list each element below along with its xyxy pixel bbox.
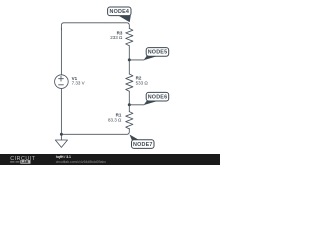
voltage source V1 bbox=[55, 75, 69, 89]
resistor R3 bbox=[126, 28, 133, 45]
svg-text:hqfH / 3.1: hqfH / 3.1 bbox=[56, 155, 71, 159]
node junction dot ground bbox=[60, 133, 63, 136]
watermark logo LAB bbox=[10, 160, 31, 164]
wire bottom horizontal bbox=[61, 129, 129, 135]
svg-text:7.33 V: 7.33 V bbox=[72, 81, 85, 86]
node flag NODE5 bbox=[144, 48, 169, 61]
wire left rail upper bbox=[60, 28, 62, 75]
watermark bar bbox=[0, 154, 220, 165]
svg-text:NODE4: NODE4 bbox=[110, 9, 130, 15]
wire R2 to node6 junction bbox=[128, 91, 130, 105]
node junction dot NODE6 bbox=[128, 103, 131, 106]
resistor R1 bbox=[126, 112, 133, 129]
wire R3 to node5 junction bbox=[128, 46, 130, 60]
svg-text:83.3 Ω: 83.3 Ω bbox=[108, 118, 122, 123]
svg-text:NODE5: NODE5 bbox=[148, 50, 168, 56]
wire junction to R1 bbox=[128, 105, 130, 112]
wire node6 stub bbox=[129, 104, 144, 106]
node flag NODE7 bbox=[130, 135, 155, 149]
svg-text:LAB: LAB bbox=[21, 160, 29, 164]
resistor R2 bbox=[126, 74, 133, 91]
node flag NODE6 bbox=[144, 92, 169, 105]
svg-text:NODE7: NODE7 bbox=[133, 142, 153, 148]
svg-text:NODE6: NODE6 bbox=[148, 94, 168, 100]
wire top horizontal bbox=[61, 23, 129, 30]
node junction dot NODE5 bbox=[128, 58, 131, 61]
node junction dots bbox=[60, 58, 131, 135]
wire left rail lower bbox=[60, 88, 62, 134]
svg-text:533 Ω: 533 Ω bbox=[136, 81, 149, 86]
svg-text:circuitlab.com/c/4v54d8bdd09ab: circuitlab.com/c/4v54d8bdd09abc bbox=[56, 160, 107, 164]
wire junction to R2 bbox=[128, 60, 130, 74]
svg-text:233 Ω: 233 Ω bbox=[110, 35, 123, 40]
ground bbox=[60, 134, 62, 140]
node flag NODE4 bbox=[108, 7, 131, 22]
wire node5 stub bbox=[129, 59, 144, 61]
